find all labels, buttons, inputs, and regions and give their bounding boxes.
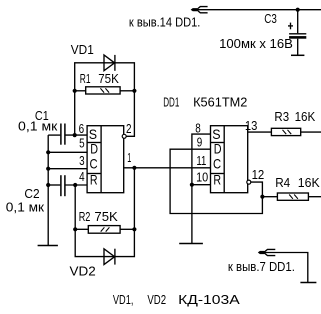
wire pin 10 (192, 184, 211, 186)
node R2 right (132, 227, 136, 231)
svg-text:R2: R2 (79, 209, 91, 224)
ground left rail bar (38, 245, 58, 247)
svg-text:DD1: DD1 (163, 95, 179, 110)
op-amp DD1.1 flip-flop box (87, 126, 124, 193)
svg-text:C: C (90, 155, 98, 171)
svg-text:12: 12 (252, 167, 265, 182)
node junction top rail / C3 (296, 8, 300, 12)
ground C3 terminal bar (291, 54, 304, 56)
wire C1 left lead (48, 134, 60, 136)
wire pin 3 (48, 168, 87, 170)
node pin10/pin8 (190, 183, 194, 187)
svg-text:VD1,: VD1, (113, 292, 133, 307)
svg-text:R: R (213, 172, 221, 188)
node pin5 (46, 150, 50, 154)
wire pin 6 (66, 134, 88, 136)
svg-text:R3: R3 (274, 109, 289, 124)
resistor R3 16K (271, 128, 321, 135)
svg-text:C3: C3 (264, 11, 277, 26)
svg-text:D: D (214, 141, 222, 157)
svg-text:к выв.7 DD1.: к выв.7 DD1. (228, 259, 295, 274)
svg-text:16K: 16K (295, 109, 316, 124)
wire pin 1 to pin 11 (124, 167, 211, 169)
wire C3 top lead (297, 10, 299, 34)
svg-text:R1: R1 (80, 71, 91, 86)
wire pin 4 left lead (48, 184, 60, 186)
svg-text:4: 4 (79, 169, 85, 184)
svg-text:5: 5 (79, 136, 85, 151)
wire pin2 feedback (126, 91, 134, 137)
wire top supply rail (198, 9, 321, 11)
svg-text:13: 13 (245, 118, 258, 133)
svg-text:VD2: VD2 (70, 263, 96, 278)
capacitor C2 (61, 175, 65, 196)
wire pin 12 (251, 182, 263, 197)
wire left common rail (47, 135, 49, 245)
wire VD1 top branch (75, 63, 135, 91)
svg-text:9: 9 (197, 135, 203, 150)
node R2 left (73, 227, 77, 231)
svg-text:75K: 75K (98, 71, 119, 86)
svg-text:8: 8 (195, 120, 201, 135)
wire pin10 down to ground (191, 185, 193, 244)
wire pin 4 (66, 184, 88, 186)
svg-text:К561ТМ2: К561ТМ2 (193, 95, 247, 110)
wire pin 9 (170, 149, 262, 213)
svg-text:0,1 мк: 0,1 мк (18, 118, 58, 133)
svg-text:16K: 16K (298, 175, 320, 190)
node R1 right (132, 89, 136, 93)
svg-text:3: 3 (79, 153, 85, 168)
node R1 left (73, 89, 77, 93)
node pin3 (46, 167, 50, 171)
svg-text:6: 6 (79, 121, 85, 136)
svg-text:100мк x 16В: 100мк x 16В (219, 36, 293, 51)
wire pin4 junction down to R2 (74, 185, 76, 229)
connector arrow to pin 7 DD1 (259, 249, 276, 255)
wire R1 junction down to C1/pin6 (74, 91, 76, 135)
plus polarity mark C3 (288, 23, 293, 30)
wire pin1 junction up from R2 (133, 168, 135, 230)
svg-text:2: 2 (126, 121, 132, 136)
svg-text:75K: 75K (94, 209, 118, 224)
wire pin 13 (248, 131, 272, 133)
svg-text:1: 1 (127, 150, 131, 165)
diode VD2 (104, 249, 115, 265)
svg-text:C: C (213, 155, 221, 171)
svg-text:0,1 мк: 0,1 мк (6, 200, 45, 215)
ground middle bar (179, 243, 203, 245)
pin 2 inversion circle (122, 134, 126, 138)
svg-text:11: 11 (196, 153, 206, 168)
diode VD1 (104, 55, 115, 71)
node R4 left (260, 195, 264, 199)
op-amp DD1.2 flip-flop box (211, 126, 248, 193)
node C2 right / pin4 (73, 183, 77, 187)
resistor R2 75K (75, 226, 134, 234)
node C2 left (46, 183, 50, 187)
capacitor C1 (61, 124, 65, 145)
node pin1 (132, 166, 136, 170)
svg-text:R4: R4 (275, 175, 290, 190)
node C1 / pin6 (73, 133, 77, 137)
svg-text:КД-103А: КД-103А (178, 292, 240, 307)
svg-text:к выв.14 DD1.: к выв.14 DD1. (129, 15, 201, 30)
wire VD2 bottom branch (75, 229, 134, 256)
svg-text:R: R (90, 172, 98, 188)
svg-text:VD2: VD2 (147, 292, 166, 307)
ground bottom right bar (300, 282, 316, 284)
svg-text:D: D (90, 141, 98, 157)
pin 12 inversion circle (247, 180, 251, 184)
resistor R4 16K (262, 193, 321, 200)
resistor R1 75K (75, 87, 135, 94)
wire pin 5 (48, 151, 87, 153)
wire C3 bottom lead (297, 39, 299, 56)
svg-text:10: 10 (196, 170, 208, 185)
wire pin 8 (192, 134, 211, 185)
svg-text:VD1: VD1 (71, 42, 94, 57)
connector arrow to pin 14 DD1 (191, 7, 207, 13)
capacitor C3 (289, 34, 306, 39)
wire pin7 connector lead (265, 253, 308, 283)
